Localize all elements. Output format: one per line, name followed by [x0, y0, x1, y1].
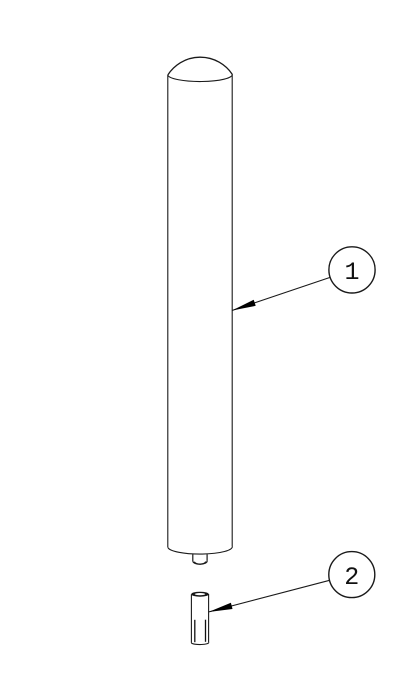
tube item 2: inner bore left line	[194, 620, 196, 642]
pole item 1: dome cap arc	[168, 57, 232, 75]
arrowhead at item 2	[209, 603, 233, 612]
nub below pole: inner tip arc	[194, 562, 205, 565]
tube item 2: inner bore rim opening	[195, 593, 206, 595]
balloon circle 2	[329, 552, 375, 598]
arrowhead at item 1	[232, 300, 256, 311]
tube item 2: bottom arc	[191, 642, 208, 644]
leader line to item 1	[232, 277, 330, 310]
nub below pole: bottom arc	[193, 561, 207, 564]
balloon circle 1	[329, 247, 375, 293]
pole item 1: left side edge	[167, 75, 169, 547]
nub below pole: right edge	[206, 554, 208, 561]
nub below pole: left edge	[192, 554, 194, 561]
svg-text:1: 1	[344, 258, 359, 287]
tube item 2: inner bore right line	[205, 620, 207, 642]
tube item 2: left side edge	[190, 594, 192, 643]
svg-text:2: 2	[344, 563, 359, 592]
leader line to item 2	[209, 580, 330, 612]
pole item 1: bottom front ellipse	[168, 546, 232, 554]
tube item 2: right side edge	[208, 594, 210, 642]
pole item 1: right side edge	[231, 74, 233, 546]
pole item 1: top rim front ellipse	[168, 74, 232, 81]
tube item 2: outer rim ellipse	[191, 592, 208, 597]
